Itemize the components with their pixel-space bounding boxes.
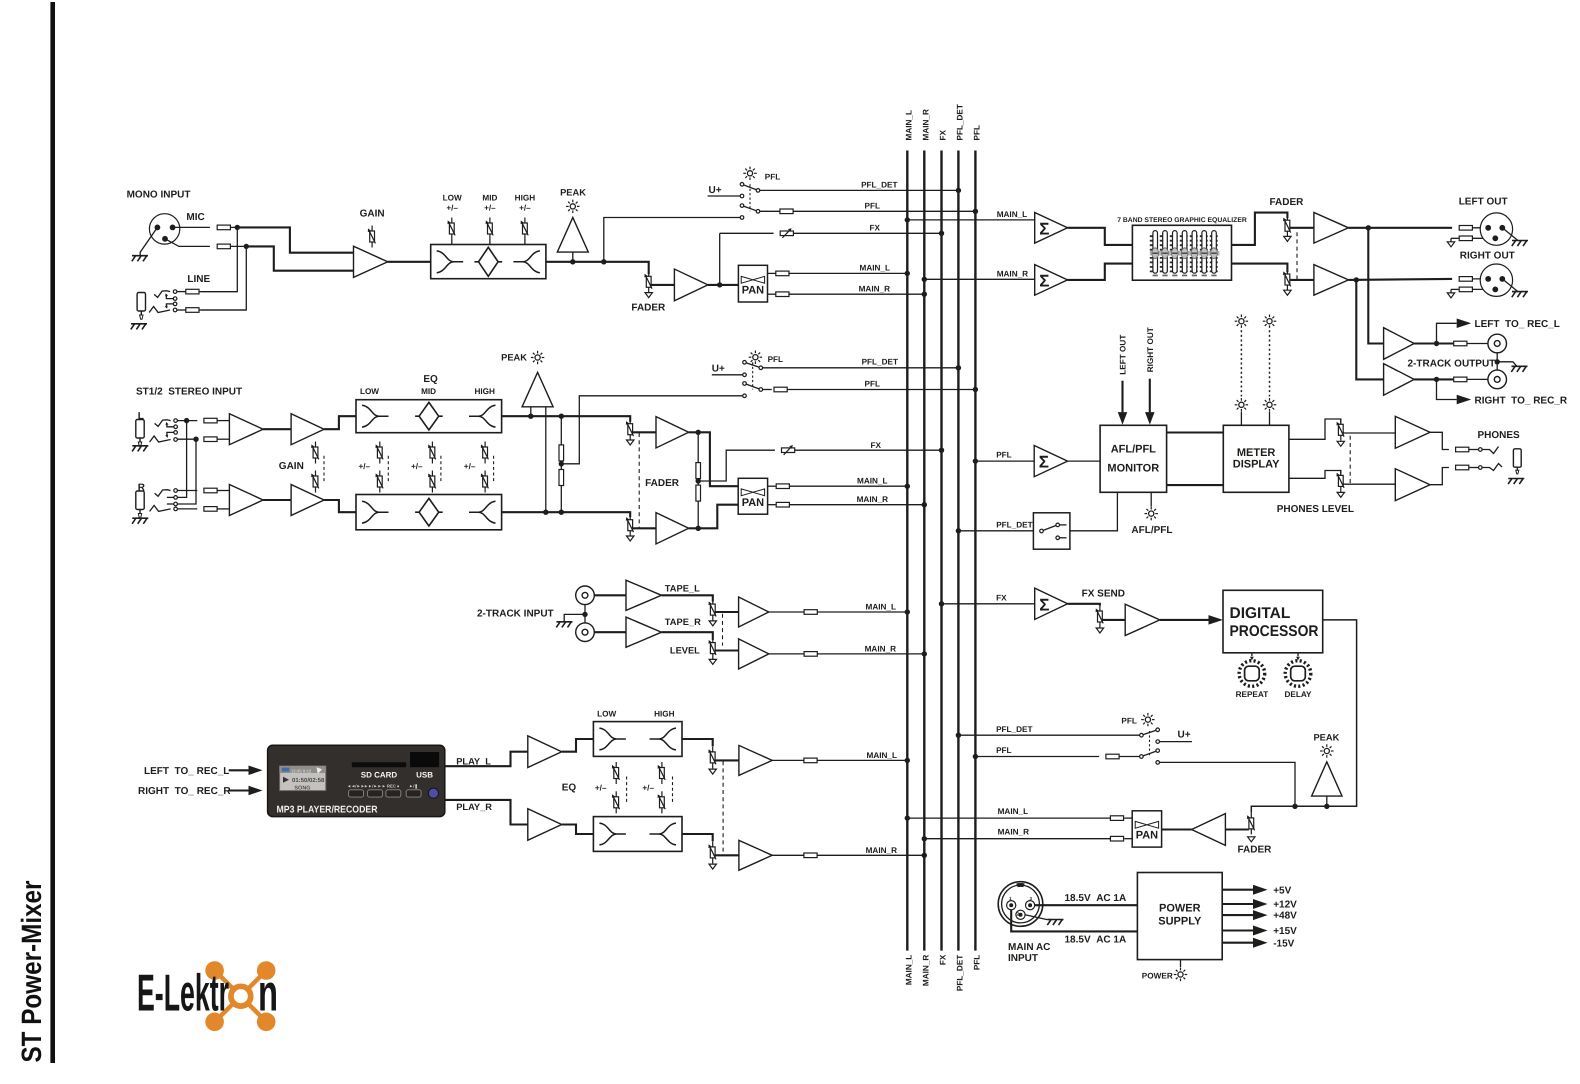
wire 2track L out	[1414, 342, 1453, 344]
potentiometer EQ HIGH	[521, 218, 529, 240]
play amp L	[528, 736, 562, 768]
jack contact R tip	[155, 490, 171, 497]
fader potentiometer ch1	[644, 271, 652, 293]
junction main_l bus st	[905, 484, 910, 489]
DIGITAL PROCESSOR block	[1223, 590, 1323, 653]
wire L ring	[177, 438, 197, 440]
svg-text:FX: FX	[939, 954, 948, 965]
wire pfl sig mp3	[1160, 762, 1296, 806]
resistor pan R ch1	[776, 292, 789, 297]
wire tape main_r	[817, 653, 924, 655]
svg-text:MONO INPUT: MONO INPUT	[127, 190, 191, 201]
wire R ring	[177, 508, 197, 510]
wire faderL to amp main	[1290, 227, 1314, 229]
resistor L ring	[204, 437, 217, 442]
wire power lamp stem	[1180, 960, 1182, 968]
wire faderL amp st	[633, 431, 656, 433]
pan bowtie ch1	[741, 276, 764, 283]
svg-text:MAIN_L: MAIN_L	[998, 807, 1028, 816]
potentiometer low R st	[376, 471, 384, 493]
wire out R res mp3	[772, 854, 804, 856]
RCA jack 2-track out L	[1488, 334, 1507, 353]
junction pfl monitor	[973, 458, 978, 463]
wire L tip	[177, 420, 197, 422]
wire play R	[445, 800, 528, 825]
svg-text:12:45 9:12: 12:45 9:12	[291, 768, 312, 773]
wire PFL st b	[787, 389, 975, 391]
wire pan main_l mp3	[907, 817, 1110, 819]
svg-text:RIGHT TO_ REC_R: RIGHT TO_ REC_R	[1475, 395, 1568, 406]
gain amp R st	[291, 485, 324, 516]
gain amp L st	[291, 414, 324, 445]
svg-text:PAN: PAN	[1136, 830, 1158, 842]
wire fx amp to dp	[1160, 619, 1209, 621]
wire amp to pan ch1	[708, 284, 739, 286]
jack link R b	[167, 503, 174, 505]
fx amp	[1125, 604, 1160, 635]
switch PFL ch1	[740, 183, 760, 220]
RCA jack 2-track out R	[1488, 370, 1507, 389]
wire pfl tap st	[561, 396, 742, 464]
sum amp MAIN_L	[1035, 213, 1068, 244]
phones amp L	[1395, 416, 1430, 448]
node B mic/line junction	[244, 244, 249, 249]
jack link LINE a	[166, 295, 173, 299]
resistor R ring	[204, 507, 217, 512]
peak detector amp ch1	[557, 218, 588, 253]
lamp PFL mp3	[1141, 713, 1154, 726]
PAN block st	[738, 478, 767, 514]
EQ block st L	[356, 400, 502, 433]
svg-text:18.5V AC 1A: 18.5V AC 1A	[1065, 893, 1127, 904]
svg-text:MID: MID	[482, 193, 497, 202]
wire node A to line L	[201, 227, 238, 291]
op-amp gain mono	[354, 246, 388, 277]
pan bowtie mp3	[1135, 821, 1158, 828]
svg-text:MAIN_L: MAIN_L	[857, 477, 887, 486]
resistor 2track L	[1454, 341, 1467, 346]
wire monitor arrow L	[1121, 381, 1123, 413]
svg-text:PFL_DET: PFL_DET	[956, 955, 965, 991]
junction main_r sum	[922, 277, 927, 282]
gang line phones	[1349, 436, 1351, 485]
phones arrow R	[1337, 492, 1344, 497]
svg-text:ST1/2 STEREO INPUT: ST1/2 STEREO INPUT	[136, 386, 242, 397]
fader pot main R	[1283, 269, 1291, 291]
arrow supply +48V	[1253, 910, 1268, 920]
gang line low st	[387, 456, 389, 482]
lamp meter L bottom	[1235, 398, 1248, 411]
svg-text:PFL_DET: PFL_DET	[861, 180, 897, 189]
wire meter lamp stem R	[1269, 412, 1271, 426]
junction L tip	[184, 418, 189, 423]
gang line level tape	[722, 614, 724, 646]
svg-text:LEFT OUT: LEFT OUT	[1119, 335, 1128, 375]
svg-text:Σ: Σ	[1039, 219, 1049, 238]
fader pot L st	[626, 418, 634, 440]
wire L normal to R 2	[177, 439, 196, 504]
phones contact R	[1482, 464, 1502, 471]
resistor xlr L hot	[1459, 226, 1472, 231]
svg-text:+/–: +/–	[642, 783, 654, 792]
svg-text:FADER: FADER	[645, 478, 680, 489]
svg-text:SUPPLY: SUPPLY	[1158, 916, 1202, 928]
post-fader amp ch1	[674, 269, 708, 301]
wire dp output	[1251, 620, 1356, 813]
2-track out amp L	[1384, 328, 1415, 360]
junction pfl_det bus ch1	[956, 188, 961, 193]
svg-text:MAIN_R: MAIN_R	[866, 846, 897, 855]
wire L ring 2	[217, 438, 229, 440]
phones jack pin L	[1479, 448, 1483, 452]
svg-text:+15V: +15V	[1273, 926, 1297, 937]
lamp PFL st	[749, 351, 762, 364]
svg-text:PFL: PFL	[973, 955, 982, 970]
jack contact LINE sleeve	[149, 307, 170, 313]
svg-text:MONITOR: MONITOR	[1107, 462, 1159, 474]
wire pfl to sum	[975, 460, 1034, 462]
EQ high shelf symbol	[513, 251, 540, 273]
wire main_l ch1	[788, 272, 907, 274]
jack link R a	[167, 496, 174, 498]
wire drop to 2track R	[1356, 280, 1383, 380]
svg-text:MAIN_R: MAIN_R	[859, 285, 890, 294]
jack pin LINE 1	[173, 290, 177, 294]
svg-text:PROCESSOR: PROCESSOR	[1230, 623, 1319, 640]
PAN block ch1	[738, 265, 767, 302]
potentiometer FX SEND level	[1096, 606, 1104, 628]
svg-text:FADER: FADER	[1238, 845, 1273, 856]
wire afl lamp stem	[1150, 492, 1152, 506]
svg-text:-15V: -15V	[1273, 938, 1294, 949]
fader arrow main L	[1284, 236, 1291, 241]
wire supply -15V	[1222, 942, 1253, 944]
svg-text:PFL: PFL	[865, 201, 880, 210]
arrow LEFT TO REC_L	[1457, 319, 1472, 329]
svg-text:EQ: EQ	[562, 782, 577, 793]
svg-text:LOW: LOW	[360, 387, 379, 396]
svg-text:LEFT OUT: LEFT OUT	[1459, 197, 1508, 208]
svg-text:POWER: POWER	[1142, 972, 1173, 981]
svg-text:AFL/PFL: AFL/PFL	[1111, 443, 1156, 455]
phones pot L	[1337, 419, 1345, 441]
svg-text:GAIN: GAIN	[360, 209, 385, 220]
EQ block st R	[356, 495, 502, 530]
svg-text:+/–: +/–	[359, 462, 371, 471]
svg-text:Σ: Σ	[1039, 453, 1049, 472]
out amp R mp3	[739, 840, 772, 870]
gang line low mp3	[626, 777, 628, 804]
arrow supply +15V	[1253, 926, 1268, 936]
wire phones pot amp L	[1343, 432, 1395, 434]
resistor divider 2 st	[559, 470, 564, 486]
svg-text:PEAK: PEAK	[560, 188, 586, 198]
wire rec L arrow mp3	[229, 769, 249, 771]
wire pan L mp3	[1124, 817, 1132, 819]
resistor MIC cold	[217, 244, 230, 249]
resistor divider3 st	[696, 463, 701, 479]
potentiometer mid R st	[428, 471, 436, 493]
ground main ac	[1047, 920, 1063, 926]
wire eq L out st	[502, 416, 631, 422]
wire ampR link	[263, 499, 291, 501]
EQ low symbol mp3 R	[599, 823, 626, 845]
out amp L mp3	[739, 745, 772, 775]
meter led line L	[1240, 330, 1242, 396]
wire sumL to geq	[1068, 228, 1133, 245]
svg-text:HIGH: HIGH	[474, 387, 495, 396]
wire MIC hot	[173, 226, 210, 228]
arrow rec R mp3	[249, 786, 263, 796]
wire ac live	[1035, 904, 1138, 906]
wire monitor-meter top	[1167, 431, 1224, 433]
wire sumR to geq	[1068, 264, 1133, 280]
svg-text:PFL_DET: PFL_DET	[956, 104, 965, 140]
junction tape gnd	[582, 612, 587, 617]
potentiometer gain L st	[311, 442, 319, 464]
jack contact L tip	[155, 420, 171, 427]
svg-text:18.5V AC 1A: 18.5V AC 1A	[1065, 934, 1127, 945]
wire tape gnd	[564, 614, 585, 621]
resistor 2track R	[1454, 377, 1467, 382]
EQ high symbol st R	[469, 501, 496, 523]
EQ high symbol st L	[469, 405, 496, 427]
jack pin LINE 3	[173, 302, 177, 306]
svg-text:PLAY_R: PLAY_R	[456, 802, 492, 812]
resistor MIC hot	[217, 225, 230, 230]
graphic equalizer block	[1132, 225, 1231, 280]
junction peak L st	[528, 414, 533, 419]
EQ block mp3 L	[593, 722, 682, 757]
peak amp st	[522, 372, 553, 407]
wire xlr L row2	[1450, 238, 1452, 242]
fader arrow R st	[627, 536, 634, 541]
bus PFL_DET	[957, 151, 959, 951]
svg-text:U+: U+	[709, 185, 722, 196]
junction rec R	[1434, 377, 1439, 382]
jack pin L 2	[174, 425, 178, 429]
tape amp L	[626, 580, 662, 610]
switch stub det b	[1060, 537, 1067, 539]
junction fx bus st	[939, 448, 944, 453]
wire xlr R cold	[1472, 288, 1494, 290]
input amp L st	[229, 414, 263, 445]
jack link L b	[167, 432, 174, 436]
wire play amp R eq	[562, 825, 594, 835]
wire to node A	[230, 226, 237, 228]
wire geq out L	[1232, 213, 1288, 245]
junction pfl bus ch1	[973, 209, 978, 214]
potentiometer low R mp3	[612, 791, 620, 813]
amp reverse mp3	[1192, 814, 1226, 846]
wire main_l st	[789, 485, 907, 487]
sum amp PFL	[1034, 446, 1067, 477]
wire ampL to xlr	[1349, 227, 1453, 229]
gang line mid st	[440, 456, 442, 482]
switch stub det a	[1060, 524, 1067, 526]
wire peak stem mp3	[1326, 796, 1328, 806]
wire amp pan mp3	[1162, 828, 1192, 830]
potentiometer mid L st	[428, 442, 436, 464]
resistor tape L	[804, 610, 817, 615]
gang line fader main	[1296, 232, 1298, 279]
jack contact LINE tip	[154, 291, 170, 298]
jack plug LINE	[137, 293, 145, 320]
wire main_r mp3	[817, 854, 924, 856]
wire monitor-meter bottom	[1167, 484, 1224, 486]
wire peak in R st	[545, 407, 547, 512]
switch PFL st	[743, 361, 763, 398]
resistor xlr R cold	[1459, 287, 1472, 292]
wire rca link	[1496, 353, 1498, 370]
wire rec R arrow mp3	[229, 789, 249, 791]
svg-text:MAIN_R: MAIN_R	[857, 495, 888, 504]
wire pot L amp mp3	[715, 759, 739, 761]
wire supply +12V	[1222, 903, 1253, 905]
arrow xlr L lift	[1447, 242, 1454, 247]
svg-text:7 BAND STEREO GRAPHIC EQUALIZE: 7 BAND STEREO GRAPHIC EQUALIZER	[1117, 217, 1247, 224]
wire pot low stem	[451, 240, 453, 245]
svg-text:MP3 PLAYER/RECODER: MP3 PLAYER/RECODER	[277, 805, 378, 816]
junction fx sum	[939, 601, 944, 606]
wire level L amp	[715, 611, 738, 613]
junction main_l sum	[905, 217, 910, 222]
svg-text:PFL: PFL	[973, 125, 982, 140]
wire meter out R	[1289, 471, 1341, 479]
svg-text:HIGH: HIGH	[654, 709, 675, 718]
junction pfl_det monitor	[956, 528, 961, 533]
jack pin LINE 4	[173, 308, 177, 312]
resistor pan L st	[776, 484, 789, 489]
wire pot high stem	[524, 240, 526, 245]
wire eq R out st	[502, 512, 631, 517]
wire gain out R st	[324, 500, 356, 512]
potentiometer gain R st	[311, 471, 319, 493]
svg-text:MAIN_R: MAIN_R	[865, 644, 896, 653]
resistor pfl mp3	[1106, 754, 1119, 759]
wire 2track R rca	[1467, 378, 1488, 380]
svg-text:TAPE_L: TAPE_L	[665, 583, 700, 593]
EQ mid symbol st L	[415, 402, 443, 430]
potentiometer high L st	[481, 442, 489, 464]
EQ low shelf symbol	[437, 251, 464, 273]
svg-text:+/–: +/–	[411, 462, 423, 471]
post fader amp L st	[656, 417, 689, 448]
resistor pan R mp3	[1110, 836, 1123, 841]
jack pin R 4	[174, 507, 178, 511]
meter led line R	[1269, 330, 1271, 396]
knob DELAY	[1285, 661, 1311, 687]
gang line level mp3	[722, 761, 724, 856]
junction out R st	[696, 526, 701, 531]
XLR connector MAIN AC	[998, 882, 1043, 927]
resistor LINE L	[186, 289, 199, 294]
jack contact L sleeve	[150, 436, 171, 442]
resistor pan L mp3	[1110, 816, 1123, 821]
resistor tape R	[804, 652, 817, 657]
POWER SUPPLY block	[1137, 873, 1222, 960]
wire ampR to xlr	[1349, 279, 1453, 280]
switch PFL mp3	[1140, 728, 1160, 764]
lamp PFL ch1	[743, 167, 756, 180]
EQ high symbol mp3 R	[650, 823, 677, 845]
arrow rec L mp3	[249, 766, 263, 776]
svg-text:REPEAT: REPEAT	[1236, 690, 1269, 699]
junction pfl_det bus st	[956, 365, 961, 370]
tape amp R	[626, 617, 662, 647]
wire main_r ch1	[788, 293, 924, 295]
wire pan R mp3	[1124, 838, 1132, 840]
wire main_l mp3	[817, 759, 907, 761]
junction fx tap ch1	[717, 282, 722, 287]
potentiometer EQ LOW	[448, 218, 456, 240]
svg-text:PLAY_L: PLAY_L	[456, 756, 491, 766]
resistor R tip	[204, 488, 217, 493]
svg-text:MID: MID	[421, 387, 436, 396]
svg-text:MAIN AC: MAIN AC	[1008, 942, 1050, 953]
resistor divider4 st	[696, 485, 701, 501]
svg-text:SONG: SONG	[294, 785, 310, 791]
svg-text:MAIN_L: MAIN_L	[860, 263, 890, 272]
wire xlr L hot	[1472, 227, 1488, 229]
junction main_l mp3	[905, 758, 910, 763]
wire pan main_r mp3	[924, 838, 1110, 840]
wire phones R jack	[1469, 467, 1479, 469]
wire pan out R ch1	[768, 293, 777, 295]
EQ low symbol st R	[362, 501, 389, 523]
potentiometer low L st	[376, 442, 384, 464]
resistor divider 1 st	[559, 445, 564, 461]
wire play L	[445, 752, 528, 767]
wire eq out R mp3	[682, 834, 713, 841]
wire PFL ch1 a	[760, 210, 780, 212]
wire ampL link	[263, 428, 291, 430]
junction peak node a	[1292, 804, 1297, 809]
lamp PEAK st	[531, 351, 544, 364]
svg-text:RIGHT OUT: RIGHT OUT	[1146, 327, 1155, 372]
wire peak in L st	[530, 407, 532, 416]
potentiometer high R st	[481, 471, 489, 493]
lamp meter R bottom	[1263, 398, 1276, 411]
wire FX ch1 b	[793, 232, 941, 234]
wire xlr R row2	[1450, 289, 1452, 293]
wire pfl_det to box	[958, 530, 1033, 532]
sum amp MAIN_R	[1035, 265, 1068, 296]
junction main_r bus ch1	[922, 292, 927, 297]
svg-text:n: n	[258, 965, 278, 1023]
junction main_r bus st	[922, 502, 927, 507]
wire faderR to amp main	[1290, 279, 1314, 281]
junction pfl bus st	[973, 387, 978, 392]
svg-text:+/–: +/–	[519, 203, 531, 212]
wire L tip 2	[217, 420, 229, 422]
svg-text:U+: U+	[1178, 729, 1191, 740]
wire meter lamp stem L	[1240, 412, 1242, 426]
level pot R mp3	[708, 841, 716, 863]
svg-text:LOW: LOW	[597, 709, 616, 718]
wire rca tape link	[584, 605, 586, 623]
wire pot R amp mp3	[715, 854, 739, 856]
lamp POWER	[1174, 968, 1187, 981]
wire fx tap up ch1	[719, 233, 721, 285]
resistor L tip	[204, 418, 217, 423]
svg-text:EQ: EQ	[423, 374, 438, 385]
jack link L a	[167, 424, 174, 427]
wire pan out L ch1	[768, 272, 777, 274]
logo E-Lektron	[137, 961, 278, 1031]
jack plug L	[136, 420, 144, 447]
wire PFL st a	[762, 389, 771, 391]
